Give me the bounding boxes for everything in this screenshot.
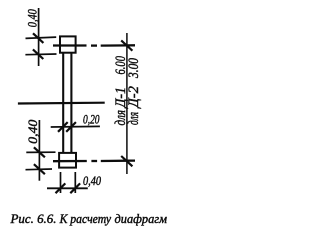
mid-left tick lower [34, 164, 45, 174]
svg-text:для: для [126, 112, 142, 125]
top-left tick lower [33, 49, 43, 59]
right dimension tick bottom [121, 156, 132, 166]
svg-text:3.00: 3.00 [126, 58, 142, 79]
bottom extension line right [74, 172, 76, 193]
base block [59, 153, 76, 168]
mid-left dimension line [38, 120, 40, 181]
top capital block [60, 36, 76, 52]
top-left dimension line [38, 8, 40, 66]
mid-left extension line upper [26, 151, 55, 153]
bottom extension line left [60, 172, 62, 193]
bottom tick right [70, 183, 80, 193]
svg-text:0,40: 0,40 [25, 119, 40, 144]
column width tick right [66, 122, 76, 132]
bottom tick left [56, 183, 66, 193]
bottom axis line solid segment [53, 160, 87, 162]
top-left extension line upper [26, 37, 57, 38]
right dimension line [126, 33, 128, 174]
top axis line solid segment [53, 44, 87, 46]
bottom dimension line [47, 187, 88, 189]
top-left tick upper [33, 33, 43, 43]
svg-text:диафрагм: диафрагм [115, 212, 168, 226]
svg-text:Д-2: Д-2 [126, 86, 142, 110]
column right wall [70, 53, 72, 153]
mid-left tick upper [34, 147, 45, 157]
svg-text:К расчету: К расчету [59, 212, 112, 226]
right dimension tick top [121, 40, 132, 50]
mid-left extension line lower [26, 168, 53, 171]
svg-text:0,20: 0,20 [83, 112, 100, 127]
column width tick left [58, 122, 68, 132]
column left wall [62, 53, 64, 153]
top-left extension line lower [25, 53, 56, 56]
column width dimension line 0,20 [51, 125, 100, 128]
bottom axis line long dash [101, 159, 135, 162]
bottom axis line dash [91, 160, 97, 162]
floor slab line [18, 102, 105, 105]
svg-text:Рис. 6.6.: Рис. 6.6. [9, 212, 56, 226]
top axis line long dash [101, 44, 135, 47]
svg-text:0,40: 0,40 [83, 173, 101, 188]
svg-text:0,40: 0,40 [25, 9, 40, 27]
top axis line dash [91, 44, 97, 46]
